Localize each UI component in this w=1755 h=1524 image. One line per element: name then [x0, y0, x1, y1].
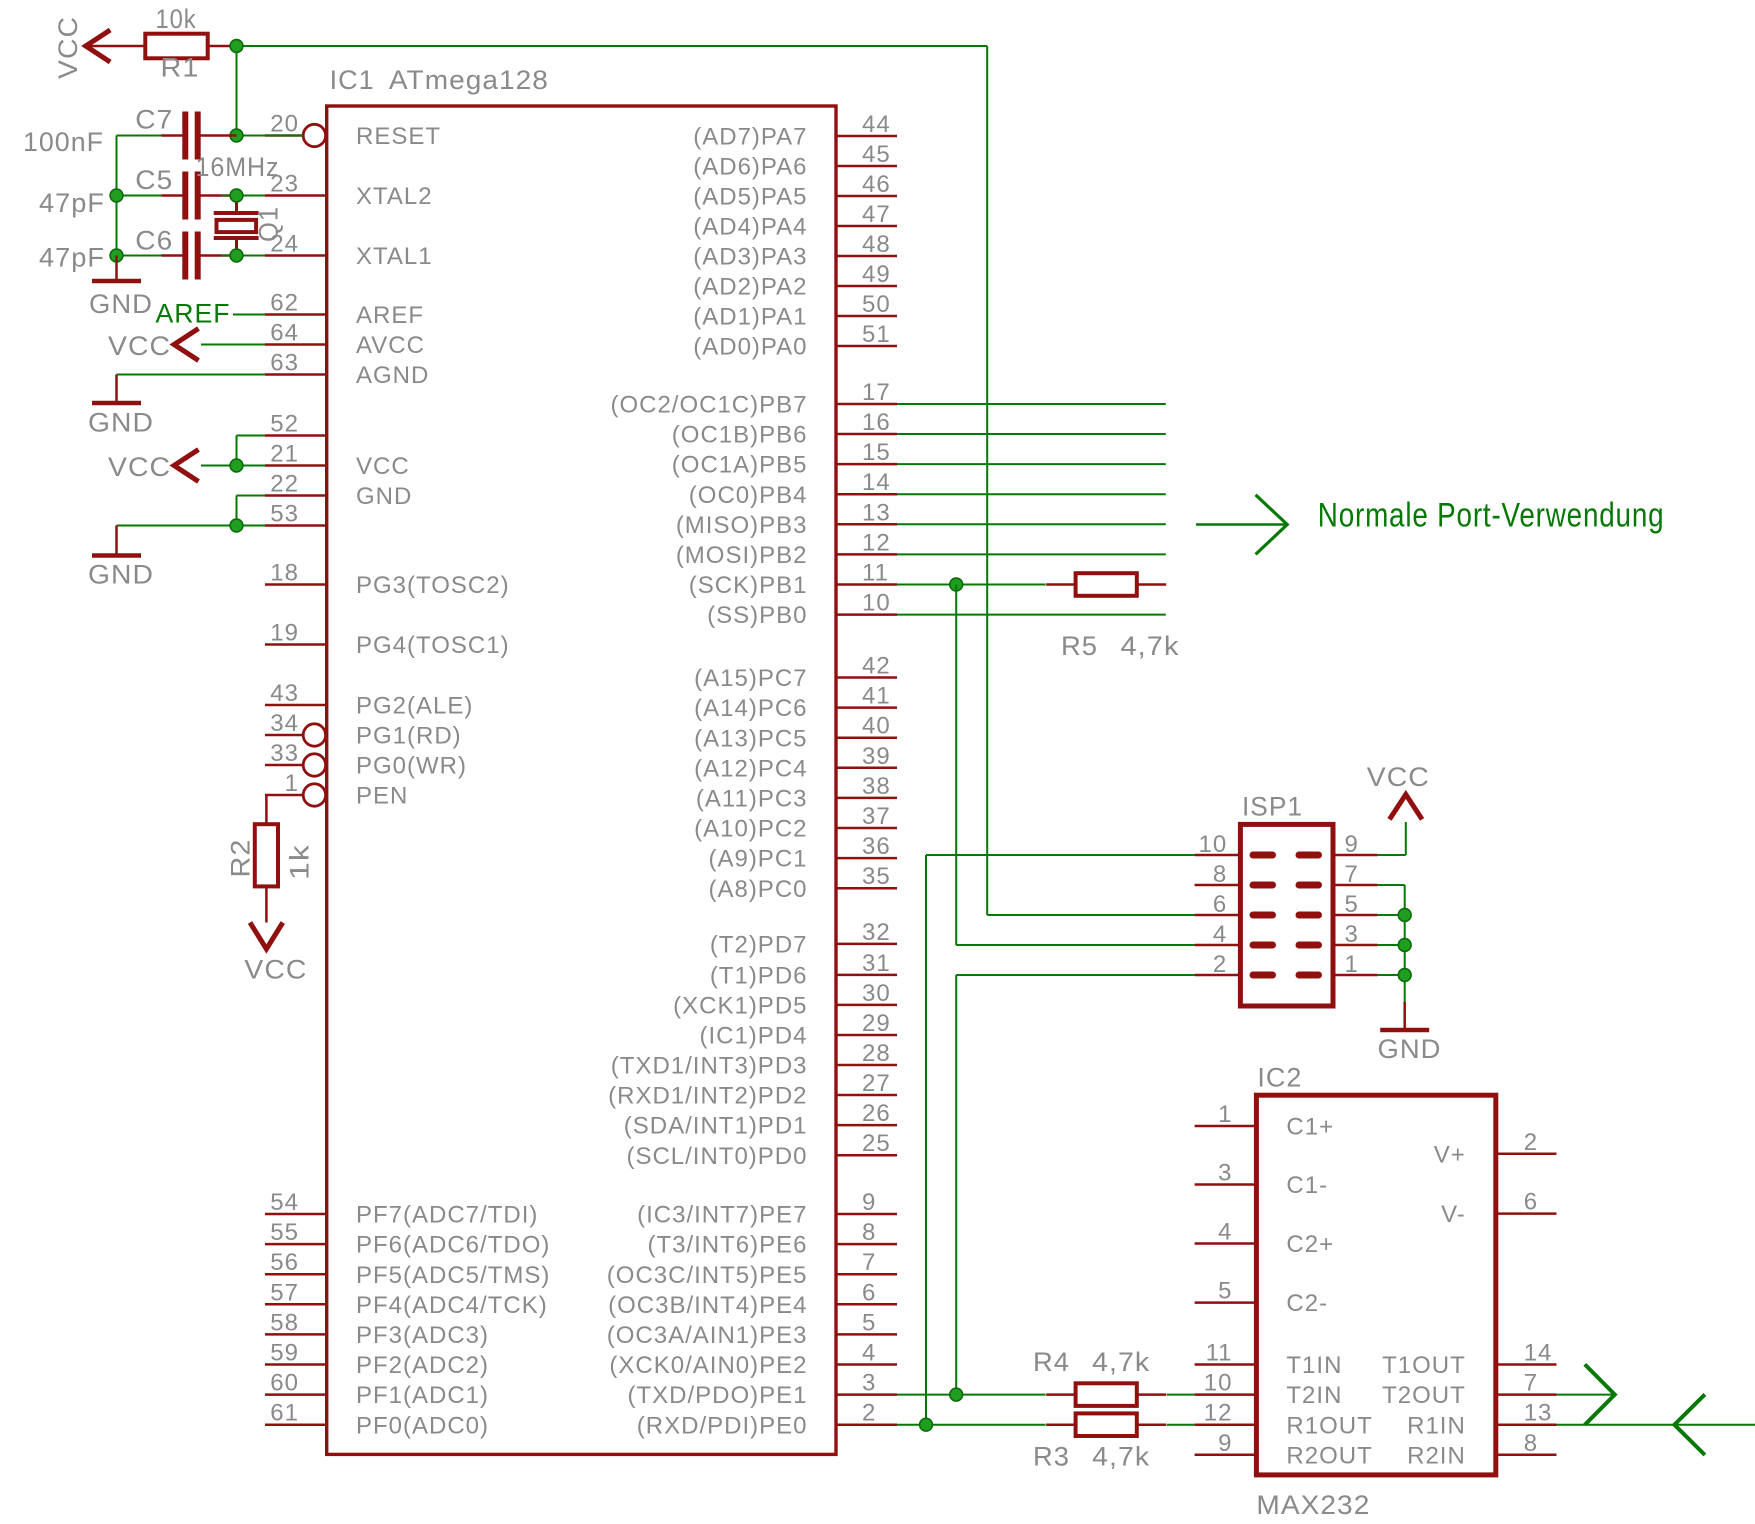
svg-text:AGND: AGND — [356, 362, 429, 389]
IC1 left pin 21 VCC — [265, 464, 327, 467]
svg-text:47pF: 47pF — [39, 188, 105, 218]
wire ISP pin 3 — [1378, 944, 1405, 946]
svg-text:R4: R4 — [1033, 1347, 1070, 1377]
svg-text:63: 63 — [270, 350, 299, 377]
svg-text:15: 15 — [862, 439, 891, 466]
junction PE1/ISP2 net — [950, 1388, 963, 1401]
svg-text:(OC3B/INT4)PE4: (OC3B/INT4)PE4 — [608, 1292, 807, 1319]
svg-text:3: 3 — [1218, 1160, 1232, 1187]
svg-text:(T1)PD6: (T1)PD6 — [710, 963, 808, 990]
svg-text:8: 8 — [1524, 1430, 1538, 1457]
svg-text:PF6(ADC6/TDO): PF6(ADC6/TDO) — [356, 1232, 550, 1259]
svg-text:(XCK1)PD5: (XCK1)PD5 — [673, 993, 807, 1020]
svg-text:37: 37 — [862, 803, 891, 830]
wire ISP pin 1 — [1378, 974, 1405, 976]
wire C5 to XTAL2 — [222, 195, 266, 197]
svg-text:1: 1 — [1218, 1101, 1232, 1128]
wire PB port net y=494.2 — [897, 493, 1166, 495]
svg-text:(A13)PC5: (A13)PC5 — [694, 725, 807, 752]
svg-text:(SDA/INT1)PD1: (SDA/INT1)PD1 — [624, 1113, 808, 1140]
wire PB port net y=404 — [897, 403, 1166, 405]
IC1 right pin 3 (TXD/PDO)PE1 — [836, 1393, 897, 1396]
IC1 left pin 33 PG0(WR) — [265, 764, 303, 767]
IC1 right pin 7 (OC3C/INT5)PE5 — [836, 1273, 897, 1276]
svg-text:31: 31 — [862, 950, 891, 977]
crystal Q1 16MHz — [235, 196, 238, 212]
svg-text:C2+: C2+ — [1286, 1231, 1334, 1258]
svg-text:R2: R2 — [226, 839, 256, 878]
IC1 right pin 40 (A13)PC5 — [836, 736, 897, 739]
svg-text:19: 19 — [270, 620, 299, 647]
svg-text:14: 14 — [862, 469, 891, 496]
IC1 right pin 6 (OC3B/INT4)PE4 — [836, 1303, 897, 1306]
svg-text:(AD2)PA2: (AD2)PA2 — [693, 274, 807, 301]
IC1 left pin 43 PG2(ALE) — [265, 704, 327, 707]
IC1 right pin 17 (OC2/OC1C)PB7 — [836, 403, 897, 406]
wire ISP pin 2 vertical to PE1 — [955, 975, 957, 1395]
ground under capacitors — [115, 256, 118, 282]
IC1 right pin 37 (A10)PC2 — [836, 827, 897, 830]
IC2 left pin 3 C1- — [1195, 1183, 1257, 1186]
svg-text:55: 55 — [270, 1219, 299, 1246]
ISP1 pins 8/7 — [1195, 884, 1241, 887]
IC2 left pin 10 T2IN — [1195, 1393, 1257, 1396]
ground below ISP1 — [1403, 1002, 1406, 1030]
svg-text:48: 48 — [862, 231, 891, 258]
svg-text:22: 22 — [270, 471, 299, 498]
junction SCK net to ISP — [950, 578, 963, 591]
svg-text:59: 59 — [270, 1340, 299, 1367]
svg-text:10k: 10k — [156, 4, 197, 34]
wire R1IN in — [1557, 1424, 1755, 1426]
svg-text:(A15)PC7: (A15)PC7 — [694, 665, 807, 692]
IC2 right pin 2 V+ — [1496, 1153, 1557, 1156]
wire C6 left — [117, 255, 162, 257]
svg-text:1: 1 — [1345, 951, 1359, 978]
svg-text:(AD4)PA4: (AD4)PA4 — [693, 214, 807, 241]
svg-text:(IC1)PD4: (IC1)PD4 — [699, 1023, 807, 1050]
svg-text:R1: R1 — [161, 53, 200, 83]
svg-text:(A10)PC2: (A10)PC2 — [694, 816, 807, 843]
svg-text:2: 2 — [862, 1400, 876, 1427]
svg-text:11: 11 — [1206, 1340, 1233, 1367]
IC2 left pin 4 C2+ — [1195, 1242, 1257, 1245]
svg-text:33: 33 — [270, 740, 299, 767]
R1 right lead — [208, 45, 237, 48]
svg-text:54: 54 — [270, 1189, 299, 1216]
svg-text:VCC: VCC — [1367, 762, 1430, 792]
wire RESET net to ISP pin 6 — [987, 914, 1194, 916]
junction ISP pin 3 — [1398, 939, 1411, 952]
svg-text:R2OUT: R2OUT — [1286, 1442, 1372, 1469]
wire ISP pin 7 — [1378, 884, 1405, 886]
svg-text:PG3(TOSC2): PG3(TOSC2) — [356, 572, 510, 599]
IC1 right pin 38 (A11)PC3 — [836, 797, 897, 800]
svg-text:10: 10 — [1198, 831, 1227, 858]
svg-text:5: 5 — [1218, 1278, 1232, 1305]
IC1 right pin 45 (AD6)PA6 — [836, 165, 897, 168]
svg-text:9: 9 — [1345, 831, 1359, 858]
IC1 left pin 18 PG3(TOSC2) — [265, 583, 327, 586]
svg-text:34: 34 — [270, 710, 299, 737]
svg-text:(OC1A)PB5: (OC1A)PB5 — [672, 452, 808, 479]
resistor R3 4,7k — [1046, 1423, 1075, 1426]
svg-text:(A8)PC0: (A8)PC0 — [708, 876, 807, 903]
wire ISP pin 5 — [1378, 914, 1405, 916]
svg-text:5: 5 — [862, 1309, 876, 1336]
svg-text:VCC: VCC — [108, 331, 171, 361]
IC1 right pin 27 (RXD1/INT2)PD2 — [836, 1094, 897, 1097]
svg-text:4: 4 — [1218, 1219, 1232, 1246]
svg-text:PF5(ADC5/TMS): PF5(ADC5/TMS) — [356, 1262, 550, 1289]
IC1 right pin 47 (AD4)PA4 — [836, 225, 897, 228]
connector ISP1 — [1240, 824, 1333, 1006]
svg-text:12: 12 — [862, 529, 891, 556]
IC1 left pin 54 PF7(ADC7/TDI) — [265, 1213, 327, 1216]
arrow R1IN (left) — [1674, 1394, 1705, 1455]
IC1 ATmega128 body — [327, 106, 836, 1454]
svg-text:7: 7 — [862, 1249, 876, 1276]
IC1 right pin 10 (SS)PB0 — [836, 613, 897, 616]
svg-text:12: 12 — [1204, 1400, 1233, 1427]
IC1 left pin 34 PG1(RD) — [265, 734, 303, 737]
IC2 right pin 14 T1OUT — [1496, 1363, 1557, 1366]
wire ISP pin 10 vertical to PE0 — [925, 855, 927, 1425]
svg-text:57: 57 — [270, 1279, 299, 1306]
svg-text:GND: GND — [89, 289, 153, 319]
svg-text:7: 7 — [1524, 1370, 1538, 1397]
VCC supply arrow above ISP1 — [1390, 794, 1423, 819]
svg-text:(A14)PC6: (A14)PC6 — [694, 695, 807, 722]
junction VCC pins — [230, 459, 243, 472]
svg-text:53: 53 — [270, 501, 299, 528]
svg-text:6: 6 — [862, 1279, 876, 1306]
junction ISP pin 1 — [1398, 969, 1411, 982]
svg-text:17: 17 — [862, 379, 891, 406]
wire R3 to R1OUT — [1167, 1424, 1195, 1426]
IC1 right pin 9 (IC3/INT7)PE7 — [836, 1213, 897, 1216]
IC1 left pin 52 NC — [265, 434, 327, 437]
wire MISO/ISP pin 10 horizontal — [926, 854, 1195, 856]
svg-text:64: 64 — [270, 320, 299, 347]
svg-text:(OC1B)PB6: (OC1B)PB6 — [672, 422, 808, 449]
svg-text:45: 45 — [862, 141, 891, 168]
IC1 left pin 57 PF4(ADC4/TCK) — [265, 1303, 327, 1306]
svg-text:PG4(TOSC1): PG4(TOSC1) — [356, 632, 510, 659]
svg-text:C5: C5 — [135, 165, 173, 195]
svg-text:PF4(ADC4/TCK): PF4(ADC4/TCK) — [356, 1292, 548, 1319]
svg-text:(RXD/PDI)PE0: (RXD/PDI)PE0 — [637, 1412, 808, 1439]
IC1 right pin 35 (A8)PC0 — [836, 887, 897, 890]
svg-text:13: 13 — [1524, 1400, 1553, 1427]
wire RXD/PE0 net — [897, 1424, 1046, 1426]
IC1 left pin 61 PF0(ADC0) — [265, 1423, 327, 1426]
svg-text:PG2(ALE): PG2(ALE) — [356, 693, 473, 720]
IC1 left pin 58 PF3(ADC3) — [265, 1333, 327, 1336]
wire RESET net horizontal top — [237, 45, 988, 47]
IC1 right pin 50 (AD1)PA1 — [836, 315, 897, 318]
svg-text:10: 10 — [1204, 1370, 1233, 1397]
ground at pins 22/53 — [115, 526, 118, 556]
svg-text:16MHz: 16MHz — [196, 152, 280, 182]
IC2 left pin 1 C1+ — [1195, 1125, 1257, 1128]
wire cap-left vertical — [116, 136, 118, 256]
svg-text:18: 18 — [270, 560, 299, 587]
IC1 right pin 42 (A15)PC7 — [836, 676, 897, 679]
svg-text:ATmega128: ATmega128 — [389, 65, 549, 95]
wire PB port net y=434 — [897, 433, 1166, 435]
junction at C7/RESET — [230, 129, 243, 142]
svg-text:RESET: RESET — [356, 123, 441, 150]
IC1 left pin 64 AVCC — [265, 343, 327, 346]
svg-text:26: 26 — [862, 1100, 891, 1127]
arrow T2OUT (right) — [1585, 1364, 1615, 1424]
svg-text:4,7k: 4,7k — [1092, 1347, 1150, 1377]
svg-text:MAX232: MAX232 — [1256, 1490, 1370, 1520]
IC1 right pin 25 (SCL/INT0)PD0 — [836, 1154, 897, 1157]
svg-text:IC1: IC1 — [330, 65, 375, 95]
svg-text:C2-: C2- — [1286, 1290, 1328, 1317]
wire R4 to T2IN — [1167, 1394, 1195, 1396]
svg-text:PF3(ADC3): PF3(ADC3) — [356, 1322, 489, 1349]
svg-text:(SCK)PB1: (SCK)PB1 — [689, 572, 808, 599]
ISP1 pins 2/1 — [1195, 974, 1241, 977]
port usage arrow (green) — [1196, 523, 1287, 526]
svg-text:39: 39 — [862, 743, 891, 770]
svg-text:(OC0)PB4: (OC0)PB4 — [689, 482, 808, 509]
svg-text:AREF: AREF — [156, 299, 231, 329]
svg-text:PEN: PEN — [356, 783, 408, 810]
IC2 left pin 11 T1IN — [1195, 1363, 1257, 1366]
svg-text:43: 43 — [270, 680, 299, 707]
svg-text:51: 51 — [862, 321, 891, 348]
svg-text:(AD1)PA1: (AD1)PA1 — [693, 304, 807, 331]
IC1 left pin 63 AGND — [265, 373, 327, 376]
ISP1 pins 10/9 — [1195, 854, 1241, 857]
svg-text:PF7(ADC7/TDI): PF7(ADC7/TDI) — [356, 1202, 538, 1229]
svg-text:(AD0)PA0: (AD0)PA0 — [693, 334, 807, 361]
svg-text:(MISO)PB3: (MISO)PB3 — [676, 512, 808, 539]
junction XTAL1/Q1 — [230, 249, 243, 262]
wire T2OUT out — [1557, 1394, 1615, 1396]
svg-text:C6: C6 — [135, 226, 173, 256]
svg-text:1: 1 — [285, 770, 299, 797]
IC1 right pin 49 (AD2)PA2 — [836, 285, 897, 288]
svg-text:13: 13 — [862, 499, 891, 526]
svg-text:(MOSI)PB2: (MOSI)PB2 — [676, 542, 808, 569]
wire C7 to RESET pin 20 — [222, 135, 303, 137]
svg-text:36: 36 — [862, 833, 891, 860]
svg-text:4,7k: 4,7k — [1092, 1442, 1150, 1472]
wire AREF — [233, 314, 265, 316]
IC1 right pin 30 (XCK1)PD5 — [836, 1004, 897, 1007]
wire 22-53 vertical — [236, 496, 238, 526]
svg-text:11: 11 — [862, 560, 889, 587]
IC1 right pin 48 (AD3)PA3 — [836, 255, 897, 258]
wire VCC to AVCC — [201, 344, 265, 346]
svg-text:C7: C7 — [135, 105, 173, 135]
svg-text:PG0(WR): PG0(WR) — [356, 753, 467, 780]
wire SCK vertical to ISP pin 4 — [955, 585, 957, 946]
svg-text:9: 9 — [862, 1189, 876, 1216]
svg-text:27: 27 — [862, 1070, 891, 1097]
svg-text:V+: V+ — [1434, 1141, 1466, 1168]
svg-text:R3: R3 — [1033, 1442, 1070, 1472]
wire PB port net y=554.4 — [897, 553, 1166, 555]
IC1 right pin 11 (SCK)PB1 — [836, 583, 897, 586]
IC1 right pin 51 (AD0)PA0 — [836, 345, 897, 348]
svg-text:IC2: IC2 — [1257, 1062, 1302, 1092]
svg-text:(T2)PD7: (T2)PD7 — [710, 932, 808, 959]
IC1 right pin 32 (T2)PD7 — [836, 943, 897, 946]
wire SCK/PB1 net — [897, 584, 1046, 586]
svg-text:10: 10 — [862, 590, 891, 617]
wire 52-21 vertical — [236, 436, 238, 466]
svg-text:58: 58 — [270, 1309, 299, 1336]
junction PE0/ISP10 net — [920, 1418, 933, 1431]
svg-text:56: 56 — [270, 1249, 299, 1276]
svg-text:T1OUT: T1OUT — [1382, 1352, 1466, 1379]
junction caps left C5 — [110, 189, 123, 202]
svg-text:T1IN: T1IN — [1286, 1352, 1342, 1379]
IC2 right pin 7 T2OUT — [1496, 1393, 1557, 1396]
wire pin 22 — [237, 495, 266, 497]
svg-text:PF1(ADC1): PF1(ADC1) — [356, 1382, 489, 1409]
svg-text:VCC: VCC — [108, 452, 171, 482]
R1 left lead — [86, 45, 145, 48]
svg-text:(TXD1/INT3)PD3: (TXD1/INT3)PD3 — [611, 1053, 808, 1080]
svg-text:60: 60 — [270, 1370, 299, 1397]
svg-text:8: 8 — [1213, 861, 1227, 888]
svg-text:47: 47 — [862, 201, 891, 228]
svg-text:VCC: VCC — [356, 453, 410, 480]
wire PB port net y=524.3 — [897, 523, 1166, 525]
svg-text:29: 29 — [862, 1010, 891, 1037]
IC1 left pin 20 RESET — [265, 134, 303, 137]
svg-text:(A11)PC3: (A11)PC3 — [696, 786, 808, 813]
IC1 left pin 55 PF6(ADC6/TDO) — [265, 1243, 327, 1246]
IC1 right pin 44 (AD7)PA7 — [836, 135, 897, 138]
svg-text:(SCL/INT0)PD0: (SCL/INT0)PD0 — [626, 1143, 807, 1170]
svg-text:PF2(ADC2): PF2(ADC2) — [356, 1352, 489, 1379]
VCC supply arrow below R2 (down) — [250, 923, 283, 950]
svg-text:C1+: C1+ — [1286, 1114, 1334, 1141]
svg-text:VCC: VCC — [244, 955, 307, 985]
svg-text:52: 52 — [270, 411, 299, 438]
svg-text:62: 62 — [270, 290, 299, 317]
IC1 left pin 53 NC — [265, 524, 327, 527]
svg-text:4,7k: 4,7k — [1121, 631, 1180, 661]
capacitor C7 — [162, 134, 186, 137]
svg-text:50: 50 — [862, 291, 891, 318]
svg-text:PG1(RD): PG1(RD) — [356, 723, 462, 750]
svg-text:GND: GND — [88, 408, 154, 438]
junction R1/RESET net — [230, 40, 243, 53]
IC2 right pin 13 R1IN — [1496, 1423, 1557, 1426]
svg-text:AREF: AREF — [356, 302, 424, 329]
svg-text:XTAL2: XTAL2 — [356, 183, 433, 210]
svg-text:(A12)PC4: (A12)PC4 — [694, 755, 807, 782]
capacitor C6 — [162, 254, 186, 257]
svg-text:(AD7)PA7: (AD7)PA7 — [693, 124, 807, 151]
svg-text:32: 32 — [862, 919, 891, 946]
svg-text:Normale Port-Verwendung: Normale Port-Verwendung — [1318, 497, 1665, 535]
svg-text:41: 41 — [862, 683, 891, 710]
svg-text:R1OUT: R1OUT — [1286, 1412, 1372, 1439]
svg-text:(OC2/OC1C)PB7: (OC2/OC1C)PB7 — [610, 392, 807, 419]
resistor R4 4,7k — [1046, 1393, 1075, 1396]
IC1 right pin 28 (TXD1/INT3)PD3 — [836, 1064, 897, 1067]
svg-text:Q1: Q1 — [254, 206, 284, 242]
svg-text:42: 42 — [862, 653, 891, 680]
wire C7 left — [117, 135, 162, 137]
ground at AGND — [115, 375, 118, 404]
svg-text:44: 44 — [862, 111, 891, 138]
VCC supply arrow top-left — [86, 30, 111, 62]
IC1 right pin 12 (MOSI)PB2 — [836, 553, 897, 556]
wire RESET net vertical to ISP pin 6 — [986, 46, 988, 915]
svg-text:(OC3C/INT5)PE5: (OC3C/INT5)PE5 — [607, 1262, 808, 1289]
VCC supply arrow at pin 21 — [174, 450, 199, 482]
IC1 left pin 19 PG4(TOSC1) — [265, 643, 327, 646]
svg-text:25: 25 — [862, 1130, 891, 1157]
IC1 right pin 46 (AD5)PA5 — [836, 195, 897, 198]
IC2 MAX232 body — [1256, 1095, 1495, 1475]
resistor R2 1k — [265, 795, 268, 824]
wire VCC to ISP pin 9 — [1405, 822, 1407, 855]
svg-text:6: 6 — [1213, 891, 1227, 918]
IC1 right pin 36 (A9)PC1 — [836, 857, 897, 860]
svg-text:28: 28 — [862, 1040, 891, 1067]
IC1 left pin 24 XTAL1 — [265, 254, 327, 257]
IC1 right pin 29 (IC1)PD4 — [836, 1034, 897, 1037]
IC1 left pin 1 PEN — [265, 794, 303, 797]
svg-text:(AD6)PA6: (AD6)PA6 — [693, 154, 807, 181]
wire ISP pin 9 — [1378, 854, 1406, 856]
wire SCK to ISP pin 4 — [956, 944, 1194, 946]
resistor R5 4,7k — [1046, 583, 1075, 586]
IC2 left pin 12 R1OUT — [1195, 1423, 1257, 1426]
IC1 right pin 41 (A14)PC6 — [836, 706, 897, 709]
IC1 right pin 15 (OC1A)PB5 — [836, 463, 897, 466]
svg-text:3: 3 — [1345, 921, 1359, 948]
svg-text:(IC3/INT7)PE7: (IC3/INT7)PE7 — [637, 1202, 807, 1229]
svg-text:6: 6 — [1524, 1189, 1538, 1216]
junction ISP pin 5 — [1398, 909, 1411, 922]
svg-text:AVCC: AVCC — [356, 332, 425, 359]
svg-text:V-: V- — [1441, 1201, 1466, 1228]
wire C5 left — [117, 195, 162, 197]
wire ISP ground vertical — [1404, 885, 1406, 1002]
wire PB port net y=464.1 — [897, 463, 1166, 465]
svg-text:(RXD1/INT2)PD2: (RXD1/INT2)PD2 — [608, 1083, 807, 1110]
svg-text:35: 35 — [862, 863, 891, 890]
svg-text:38: 38 — [862, 773, 891, 800]
IC1 right pin 2 (RXD/PDI)PE0 — [836, 1423, 897, 1426]
wire AGND to ground — [117, 374, 266, 376]
IC1 right pin 4 (XCK0/AIN0)PE2 — [836, 1363, 897, 1366]
junction caps left C6 — [110, 249, 123, 262]
svg-text:2: 2 — [1524, 1129, 1538, 1156]
svg-text:(A9)PC1: (A9)PC1 — [708, 846, 807, 873]
wire VCC to pin 21 — [201, 465, 265, 467]
svg-text:49: 49 — [862, 261, 891, 288]
wire GND to pin 53 — [117, 525, 266, 527]
svg-text:2: 2 — [1213, 951, 1227, 978]
svg-text:4: 4 — [1213, 921, 1227, 948]
svg-text:47pF: 47pF — [39, 243, 105, 273]
IC1 right pin 39 (A12)PC4 — [836, 767, 897, 770]
